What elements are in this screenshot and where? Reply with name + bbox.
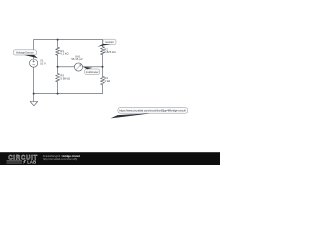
svg-text:VoltageSource: VoltageSource [16,51,34,55]
svg-text:6.2 kΩ: 6.2 kΩ [60,52,68,56]
svg-text:1 kΩ: 1 kΩ [104,79,110,83]
svg-text:multimeter: multimeter [86,70,99,74]
svg-text:LAB: LAB [27,160,36,165]
svg-text:http://circuitlab.com/c6mn45j: http://circuitlab.com/c6mn45j [43,157,77,161]
svg-text:FrankWang16 / bridge circuit: FrankWang16 / bridge circuit [43,154,80,158]
svg-text:resistor: resistor [105,40,114,44]
svg-text:https://www.circuitlab.com/cir: https://www.circuitlab.com/circuit/fcm65… [119,109,186,113]
svg-text:56.16 μV: 56.16 μV [71,57,82,61]
svg-text:0.825 kΩ: 0.825 kΩ [104,50,115,54]
svg-text:10 V: 10 V [40,62,46,66]
svg-text:9.98 kΩ: 9.98 kΩ [60,76,70,80]
